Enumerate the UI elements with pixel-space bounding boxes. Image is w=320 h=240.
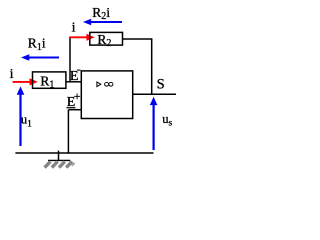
wire ground rail — [15, 152, 153, 154]
wire feedback vertical right (down to output node) — [151, 39, 153, 94]
current arrow i into R2 (red) — [69, 34, 95, 41]
current arrow i into R1 (red) — [13, 78, 38, 85]
svg-text:+: + — [74, 89, 81, 103]
current arrow R1i (blue, left) — [21, 54, 59, 61]
underline of E+ — [66, 107, 75, 109]
voltage arrow us (blue, up) — [150, 97, 158, 150]
current arrow R2i (blue, left) — [83, 19, 122, 26]
resistor R2 — [90, 32, 123, 45]
svg-text:S: S — [157, 76, 165, 92]
svg-text:i: i — [10, 67, 14, 82]
ground bar — [48, 159, 70, 161]
wire feedback vertical left (node E- up to R2 input) — [69, 37, 71, 82]
ground hatching — [45, 162, 75, 168]
voltage arrow u1 (blue, up) — [17, 86, 25, 146]
wire E+ down to ground rail — [67, 110, 69, 154]
wire E+ (non-inverting input) — [68, 109, 81, 111]
ground — [45, 151, 75, 168]
svg-text:-: - — [77, 62, 81, 76]
op-amp (infinite-gain block) — [81, 71, 132, 119]
resistor R1 — [33, 72, 66, 88]
op-amp symbol triangle — [97, 82, 101, 87]
wire node E- (R1 to op-amp inverting input) — [66, 81, 81, 83]
svg-text:R2i: R2i — [92, 5, 110, 22]
wire output (op-amp to node S) — [133, 93, 176, 95]
op-amp symbol infinity — [105, 82, 109, 86]
wire R2 right to feedback vertical — [123, 38, 153, 40]
svg-text:i: i — [72, 21, 76, 36]
ground stem — [58, 151, 60, 161]
svg-text:R1i: R1i — [28, 35, 46, 52]
